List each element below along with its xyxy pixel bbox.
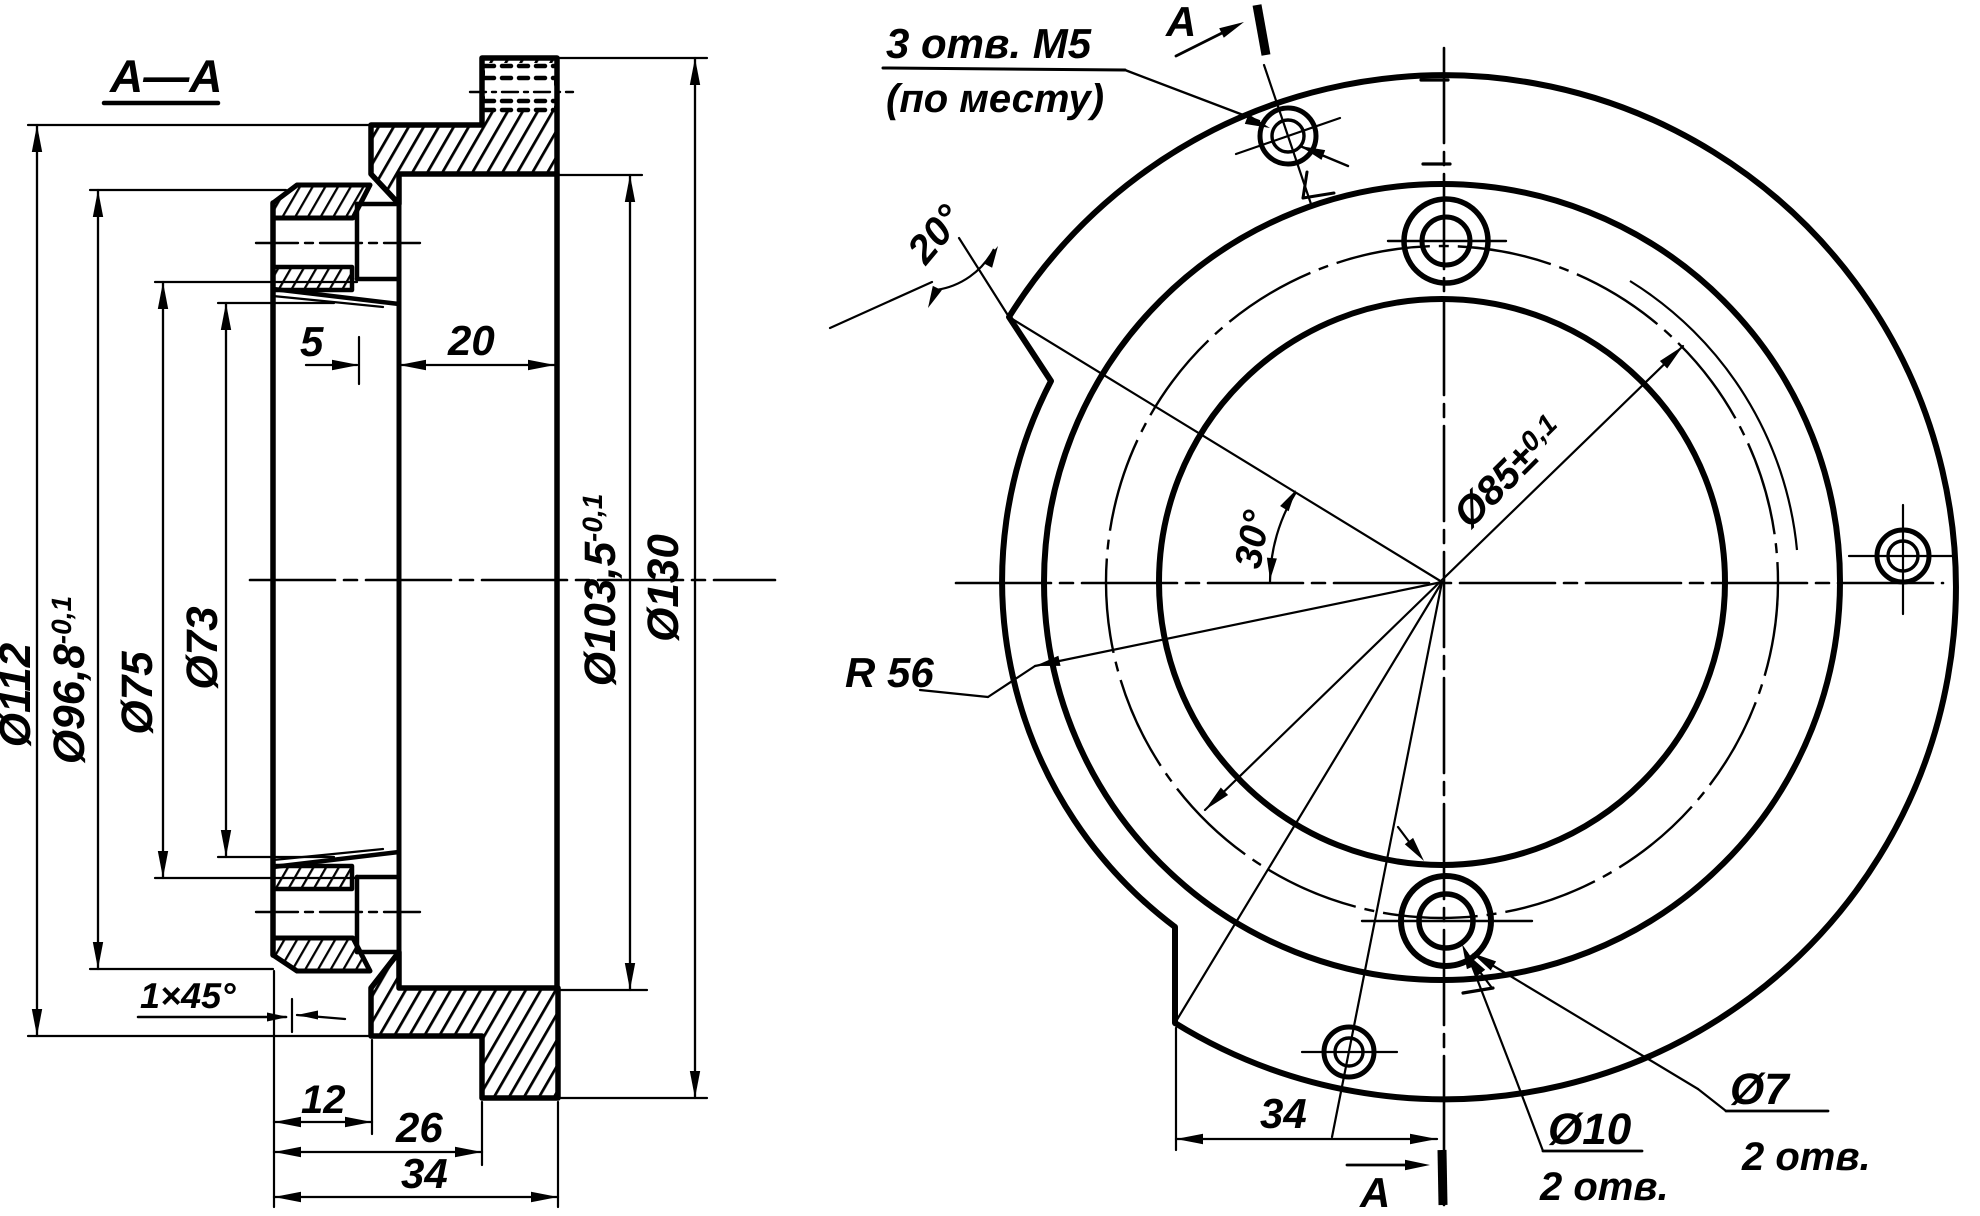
svg-text:Ø7: Ø7 bbox=[1730, 1065, 1791, 1114]
leader D10 bbox=[1462, 944, 1642, 1151]
svg-text:20: 20 bbox=[447, 317, 495, 364]
hub bore centerline top bbox=[256, 242, 420, 244]
label 34 front bbox=[1260, 1090, 1307, 1137]
label D7 qty bbox=[1741, 1135, 1871, 1179]
label 12 bbox=[301, 1078, 346, 1122]
radius R56 leader bbox=[920, 582, 1442, 697]
svg-text:Ø112: Ø112 bbox=[0, 642, 40, 747]
hole D10 bottom bbox=[1362, 876, 1532, 966]
label D7 bbox=[1730, 1065, 1791, 1114]
dimension 5 bbox=[306, 337, 359, 384]
front horizontal centerline bbox=[956, 582, 1943, 585]
section title A-A bbox=[104, 50, 222, 103]
label 34 section bbox=[401, 1150, 448, 1197]
notch edge extension bbox=[959, 238, 1009, 317]
M5 thread window details bbox=[470, 66, 573, 110]
svg-text:R 56: R 56 bbox=[845, 649, 934, 696]
svg-text:А—А: А—А bbox=[109, 50, 222, 102]
hub upper thread band bbox=[273, 267, 399, 307]
svg-text:1×45°: 1×45° bbox=[140, 975, 236, 1016]
label 1x45 bbox=[140, 975, 236, 1016]
hub lower wall section bbox=[273, 938, 370, 971]
dimension D73 bbox=[218, 303, 334, 857]
label D96.8 bbox=[45, 596, 94, 764]
label 5 bbox=[300, 318, 324, 365]
dimension D75 bbox=[155, 282, 357, 878]
hole D10 bottom arrows bbox=[1398, 827, 1492, 988]
ray center to M5 bottom hole bbox=[1332, 582, 1442, 1137]
dimension 34 front bbox=[1176, 1028, 1437, 1150]
dimension 12 bbox=[274, 971, 372, 1207]
svg-text:2 отв.: 2 отв. bbox=[1539, 1165, 1669, 1209]
dimension D130 bbox=[559, 58, 707, 1098]
hub outline bbox=[273, 174, 557, 988]
dimension 20 bbox=[399, 360, 555, 370]
bottom flat edge bbox=[1172, 927, 1178, 1023]
hole M5 bottom-left bbox=[1302, 1027, 1397, 1077]
label po mestu bbox=[886, 77, 1104, 121]
label D103.5 bbox=[576, 494, 625, 687]
hub upper wall section bbox=[273, 185, 370, 218]
svg-text:2 отв.: 2 отв. bbox=[1741, 1135, 1871, 1179]
section main centerline bbox=[250, 579, 775, 582]
dimension 1x45 bbox=[138, 999, 345, 1032]
svg-text:34: 34 bbox=[401, 1150, 448, 1197]
svg-text:Ø130: Ø130 bbox=[639, 534, 688, 642]
centerline tick above top hole bbox=[1423, 162, 1450, 165]
label D75 bbox=[113, 651, 162, 735]
label 3 otv M5 bbox=[886, 20, 1092, 67]
tick below M5 top-left bbox=[1303, 172, 1334, 198]
label R56 bbox=[845, 649, 934, 696]
outer rim circle D130 bbox=[1009, 75, 1956, 1099]
hole M5 right bbox=[1849, 505, 1956, 614]
notch edge bbox=[1009, 317, 1051, 381]
label D10 qty bbox=[1539, 1165, 1669, 1209]
dimension D103.5 bbox=[559, 175, 647, 990]
svg-text:5: 5 bbox=[300, 318, 324, 365]
leader D7 bbox=[1472, 953, 1828, 1111]
svg-text:26: 26 bbox=[395, 1104, 443, 1151]
svg-text:Ø73: Ø73 bbox=[178, 606, 227, 689]
dimension 26 bbox=[274, 1102, 482, 1165]
label D112 bbox=[0, 642, 40, 747]
label 20 bbox=[447, 317, 495, 364]
svg-text:Ø75: Ø75 bbox=[113, 651, 162, 735]
label 20deg bbox=[899, 196, 973, 272]
angle 20 arc bbox=[830, 246, 998, 328]
svg-text:А: А bbox=[1165, 0, 1196, 45]
front vertical centerline bbox=[1443, 48, 1446, 1205]
dimension D85 diagonal bbox=[1205, 346, 1683, 810]
dimension D96.8 bbox=[90, 190, 286, 969]
hub lower thread band bbox=[273, 849, 399, 889]
flange upper hatched section bbox=[371, 58, 557, 204]
flange lower hatched section bbox=[371, 952, 558, 1098]
angle 30 arc bbox=[1267, 490, 1296, 582]
svg-text:34: 34 bbox=[1260, 1090, 1307, 1137]
svg-text:А: А bbox=[1359, 1169, 1390, 1211]
svg-text:(по месту): (по месту) bbox=[886, 77, 1104, 121]
label D85 bbox=[1445, 408, 1573, 536]
top centerline tick bbox=[1421, 78, 1448, 81]
label D10 bbox=[1548, 1105, 1632, 1154]
hole D10 top bbox=[1388, 199, 1506, 283]
recess circle D103.5 bbox=[1044, 184, 1840, 980]
dimension 34 section bbox=[274, 1102, 558, 1207]
dimension D112 bbox=[28, 125, 372, 1036]
label D73 bbox=[178, 606, 227, 689]
label D130 bbox=[639, 534, 688, 642]
hole M5 top-left bbox=[1236, 65, 1340, 207]
hub bore centerline bottom bbox=[256, 911, 420, 913]
leader M5 bbox=[883, 68, 1348, 166]
bolt circle D85 bbox=[1106, 246, 1778, 918]
section mark top bbox=[1165, 0, 1266, 56]
svg-text:12: 12 bbox=[301, 1078, 346, 1122]
ray center to notch corner bbox=[1009, 317, 1442, 582]
flange circle D112 left arc bbox=[1002, 381, 1175, 927]
hub circle thick bbox=[1159, 299, 1725, 865]
label 30deg bbox=[1228, 507, 1279, 572]
svg-text:3 отв. М5: 3 отв. М5 bbox=[886, 20, 1092, 67]
hub circle thin arc bbox=[1630, 281, 1797, 550]
ray center to flat corner bbox=[1175, 582, 1442, 1023]
svg-text:Ø10: Ø10 bbox=[1548, 1105, 1632, 1154]
label 26 bbox=[395, 1104, 443, 1151]
tick below bottom hole bbox=[1463, 988, 1493, 993]
section mark bottom bbox=[1347, 1150, 1443, 1216]
